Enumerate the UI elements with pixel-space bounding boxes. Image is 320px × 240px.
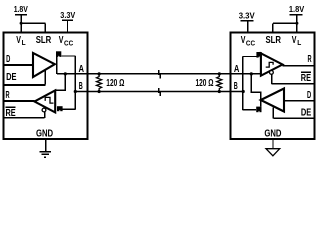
- ground (left, earth symbol): [39, 140, 51, 157]
- wire DE riser to driver enable (left): [44, 70, 46, 85]
- driver U1 triangle: [33, 53, 55, 77]
- junction dot B (right): [242, 90, 245, 93]
- wire receiver inverting input (left): [63, 108, 76, 110]
- wire pin R (left): [4, 100, 34, 102]
- svg-text:B: B: [234, 81, 238, 92]
- svg-text:B: B: [79, 81, 83, 92]
- wire SLR drop (left): [44, 23, 46, 32]
- wire pin RE (right): [272, 83, 314, 85]
- wire A to driver U2 jog: [251, 74, 260, 107]
- wire pin DE (left): [4, 84, 45, 86]
- wire RE riser to receiver enable (left): [44, 112, 46, 118]
- svg-text:1.8V: 1.8V: [289, 4, 305, 14]
- wire pin RE (left): [4, 117, 44, 119]
- svg-text:CC: CC: [64, 40, 73, 47]
- wire pin D (right): [284, 100, 313, 102]
- wire 1.8V to VL pin (left): [20, 15, 22, 33]
- svg-text:V: V: [292, 35, 297, 46]
- receiver U2 enable bubble: [270, 71, 274, 75]
- svg-text:GND: GND: [264, 128, 281, 139]
- wire RE riser (right): [271, 74, 273, 84]
- wire junction to SLR (left): [21, 22, 45, 24]
- IC box U1 (left transceiver): [4, 33, 88, 139]
- wire 1.8V to VL pin (right): [296, 15, 298, 33]
- break mark wire B: [158, 88, 160, 93]
- 1.8V supply bar (right): [289, 14, 302, 16]
- bus wire A: [57, 73, 261, 75]
- receiver U1 inverting input marker: [57, 106, 63, 111]
- svg-text:RE: RE: [301, 73, 311, 84]
- receiver U1 enable bubble: [42, 108, 46, 112]
- svg-text:L: L: [297, 38, 301, 47]
- svg-text:120 Ω: 120 Ω: [196, 78, 214, 89]
- svg-text:GND: GND: [36, 128, 53, 139]
- ground (right, open triangle symbol): [272, 140, 274, 149]
- svg-text:3.3V: 3.3V: [239, 11, 255, 21]
- svg-text:DE: DE: [301, 107, 312, 118]
- junction dot 1.8V/SLR (right): [295, 22, 298, 25]
- resistor RT2 120 ohm (right termination): [217, 74, 222, 92]
- wire vertical B to U2 markers: [242, 57, 244, 110]
- 1.8V supply bar (left): [15, 14, 27, 16]
- junction dot A (right): [250, 72, 253, 75]
- driver U2 triangle: [261, 89, 284, 112]
- wire pin DE (right): [273, 117, 313, 119]
- wire vertical to B (left): [74, 56, 76, 109]
- svg-text:R: R: [6, 90, 10, 101]
- wire pin D (left): [4, 64, 33, 66]
- svg-text:1.8V: 1.8V: [14, 4, 28, 14]
- wire 3.3V to VCC pin (left): [67, 20, 69, 33]
- svg-text:120 Ω: 120 Ω: [106, 78, 124, 89]
- receiver U1 hysteresis symbol: [45, 97, 53, 103]
- receiver U1 triangle: [35, 90, 56, 112]
- IC box U2 (right transceiver): [231, 33, 315, 139]
- svg-text:3.3V: 3.3V: [60, 10, 75, 20]
- svg-text:DE: DE: [6, 72, 17, 83]
- svg-text:R: R: [308, 54, 312, 65]
- wire DE riser (right): [272, 107, 274, 118]
- driver U2 inverting output marker: [256, 107, 261, 113]
- receiver U2 inverting input marker: [256, 52, 261, 58]
- 3.3V supply bar (left): [62, 19, 73, 21]
- svg-text:L: L: [22, 38, 26, 47]
- wire pin R (right): [283, 65, 314, 67]
- receiver U2 hysteresis symbol: [266, 62, 273, 67]
- break mark wire A: [158, 70, 160, 75]
- wire driver U2 inverting branch: [243, 109, 257, 111]
- junction dot 1.8V/SLR (left): [20, 22, 23, 25]
- bus wire B: [75, 91, 243, 93]
- junction dot A (left): [64, 72, 67, 75]
- wire receiver U2 inverting branch: [243, 56, 257, 58]
- svg-text:D: D: [307, 90, 311, 101]
- svg-text:RE: RE: [6, 108, 16, 119]
- svg-text:V: V: [59, 35, 64, 46]
- wire SLR drop (right): [272, 23, 274, 32]
- wire 3.3V to VCC pin (right): [247, 21, 249, 33]
- svg-text:SLR: SLR: [266, 35, 282, 46]
- svg-text:V: V: [16, 35, 21, 46]
- wire junction to SLR (right): [273, 22, 297, 24]
- 3.3V supply bar (right): [241, 20, 254, 22]
- svg-text:V: V: [241, 35, 246, 46]
- junction dot B (left): [74, 90, 77, 93]
- svg-text:A: A: [234, 64, 240, 75]
- resistor RT1 120 ohm (left termination): [97, 74, 102, 92]
- wire driver output vertical (left): [56, 52, 58, 74]
- wire driver inverting branch (left): [61, 55, 75, 57]
- wire A to receiver jog (left): [55, 74, 65, 90]
- svg-text:A: A: [79, 64, 85, 75]
- svg-text:SLR: SLR: [36, 35, 52, 46]
- receiver U2 triangle: [261, 53, 283, 75]
- svg-text:CC: CC: [246, 40, 255, 47]
- svg-text:D: D: [6, 54, 10, 65]
- driver U1 inverting output marker: [56, 51, 61, 57]
